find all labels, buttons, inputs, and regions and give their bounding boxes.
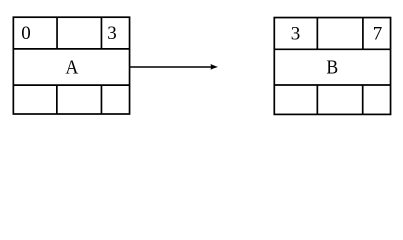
activity label A (65, 56, 78, 78)
svg-text:0: 0 (21, 23, 31, 44)
svg-text:7: 7 (373, 24, 383, 45)
node B box outline (274, 18, 390, 115)
value 7 early finish of B (373, 24, 383, 45)
node A column divider 2 top row (100, 17, 102, 49)
activity label B (326, 56, 338, 78)
svg-text:3: 3 (107, 23, 117, 44)
value 3 early start of B (291, 24, 301, 45)
node A box outline (13, 17, 129, 114)
arrow from A to B (130, 64, 218, 70)
node B column divider 1 bottom row (316, 85, 318, 114)
value 0 early start of A (21, 23, 31, 44)
node B column divider 2 bottom row (362, 85, 364, 114)
svg-text:B: B (326, 56, 338, 78)
svg-text:3: 3 (291, 24, 301, 45)
node B row divider upper (274, 48, 390, 50)
node A column divider 1 bottom row (56, 85, 58, 114)
node A column divider 1 top row (56, 17, 58, 49)
node A row divider upper (13, 48, 129, 50)
node A column divider 2 bottom row (100, 85, 102, 114)
node A row divider lower (13, 84, 129, 86)
value 3 early finish of A (107, 23, 117, 44)
node B column divider 2 top row (362, 18, 364, 50)
node B column divider 1 top row (316, 18, 318, 50)
node B row divider lower (274, 84, 390, 86)
svg-text:A: A (65, 56, 78, 78)
